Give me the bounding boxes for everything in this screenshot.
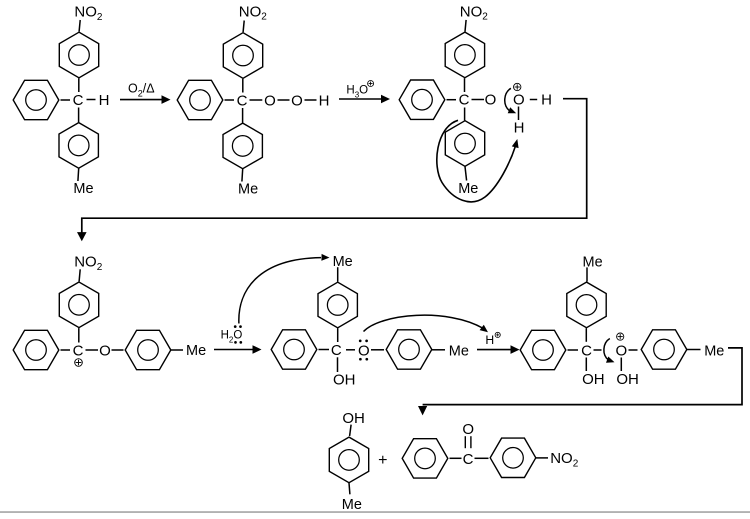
phenyl ring E-left	[271, 330, 317, 369]
bond D nitrophenyl-C4	[78, 328, 80, 342]
double bond C7=O	[465, 436, 471, 448]
bond B C2-tolyl	[242, 108, 244, 123]
curved arrow C-O cleavage (F)	[604, 339, 615, 363]
plus charge on H3O	[368, 81, 374, 87]
label NO2 (B)	[239, 3, 267, 22]
bond tolyl-Me (F)	[687, 349, 701, 351]
phenyl ring ketone-left	[402, 439, 448, 478]
svg-text:O: O	[264, 93, 276, 110]
tolyl ring E-top	[318, 282, 357, 328]
tolyl ring B-bottom	[223, 123, 262, 169]
nitrophenyl ring C-top	[445, 32, 484, 78]
atom O+ (C)	[513, 92, 525, 109]
svg-text:OH: OH	[582, 371, 605, 388]
svg-text:H: H	[99, 92, 110, 109]
plus charge on H (E arrow)	[495, 332, 500, 337]
bond ring-Me (cresol)	[348, 483, 351, 494]
svg-text:Me: Me	[186, 343, 206, 359]
bond O-tolyl (D)	[112, 349, 124, 351]
bond C nitrophenyl-C3	[464, 78, 466, 92]
label OH (cresol)	[342, 410, 365, 427]
atom H below (C)	[514, 119, 525, 136]
atom H (B)	[319, 93, 330, 110]
bond F phenyl-C6	[568, 349, 579, 351]
svg-text:H2O: H2O	[221, 329, 243, 344]
atom O (carbonyl)	[462, 421, 474, 438]
label OH (F left)	[582, 371, 605, 388]
bond C tolyl-Me	[465, 167, 467, 181]
bond A phenyl-C1	[61, 99, 71, 101]
cresol ring	[329, 437, 368, 483]
connector arrow 1	[77, 99, 587, 242]
atom O (B peroxide 2)	[291, 93, 303, 110]
lone pair dots above H2O	[234, 325, 242, 328]
phenyl ring B-left	[177, 80, 223, 119]
separator line	[0, 511, 750, 513]
bond C6-OH	[585, 358, 587, 372]
svg-text:O: O	[485, 92, 497, 109]
svg-text:O: O	[462, 421, 474, 438]
svg-text:NO2: NO2	[460, 3, 489, 22]
atom C5	[331, 342, 342, 359]
bond C5-OH	[337, 357, 339, 372]
lone pairs above O (E)	[359, 340, 368, 343]
bond C ring-NO2	[465, 20, 466, 32]
svg-text:C: C	[331, 342, 342, 359]
connector arrow 2	[418, 348, 742, 416]
bond D ring-NO2	[79, 269, 80, 281]
label O2/delta	[128, 82, 155, 99]
svg-text:C: C	[73, 343, 84, 360]
bond C5-O	[346, 349, 355, 351]
reaction arrow 3	[214, 345, 262, 354]
label Me (E right)	[449, 343, 469, 359]
tolyl ring A-bottom	[59, 123, 98, 169]
svg-text:Me: Me	[238, 182, 258, 198]
bond C phenyl-C3	[447, 99, 457, 101]
bond E phenyl-C5	[319, 349, 330, 351]
label Me (C)	[458, 181, 478, 197]
atom C1	[73, 92, 84, 109]
label Me (F right)	[704, 343, 724, 359]
svg-text:Me: Me	[583, 254, 603, 270]
label Me (F top)	[583, 254, 603, 270]
atom C6	[581, 343, 592, 360]
svg-text:O: O	[291, 93, 303, 110]
svg-text:C: C	[73, 92, 84, 109]
bond B phenyl-C2	[225, 99, 235, 101]
svg-text:C: C	[581, 343, 592, 360]
bond OH-ring (cresol)	[350, 425, 352, 436]
bond B ring-NO2	[243, 21, 244, 33]
bond A tolyl-Me	[77, 168, 80, 181]
atom O (D ether)	[99, 343, 111, 360]
bond C2-O	[250, 99, 263, 101]
label NO2 (A)	[74, 4, 103, 23]
bond O-H down (C)	[518, 107, 520, 121]
label Me (D)	[186, 343, 206, 359]
atom O (B peroxide 1)	[264, 93, 276, 110]
svg-text:Me: Me	[342, 497, 362, 513]
svg-text:C: C	[463, 451, 474, 468]
svg-text:O: O	[358, 342, 370, 359]
svg-text:O2/Δ: O2/Δ	[128, 82, 155, 99]
atom C4	[73, 343, 84, 360]
bond D phenyl-C4	[61, 349, 71, 351]
atom O (C ether)	[485, 92, 497, 109]
bond E ring-C5	[337, 328, 339, 342]
label NO2 (C)	[460, 3, 489, 22]
label NO2 (D)	[74, 253, 103, 272]
svg-text:NO2: NO2	[550, 450, 579, 469]
bond E Me-ring	[337, 267, 339, 282]
tolyl ring D-right	[125, 330, 171, 369]
svg-text:Me: Me	[704, 343, 724, 359]
svg-text:H3O: H3O	[346, 84, 368, 99]
label H3O+	[346, 84, 368, 99]
bond ring-NO2 (ketone)	[536, 457, 548, 459]
label H2O	[221, 329, 243, 344]
atom O (E ether)	[358, 342, 370, 359]
bond C1-H	[87, 99, 96, 101]
bond B nitrophenyl-C2	[242, 79, 244, 93]
plus charge on O (F)	[617, 333, 624, 340]
bond tolyl-Me (E)	[432, 349, 445, 351]
phenyl ring F-left	[520, 330, 566, 369]
label Me (A)	[73, 181, 93, 197]
svg-text:Me: Me	[449, 343, 469, 359]
svg-text:Me: Me	[458, 181, 478, 197]
bond B tolyl-Me	[241, 169, 244, 182]
nitrophenyl ring ketone-right	[490, 438, 536, 477]
svg-text:O: O	[615, 343, 627, 360]
atom O+ (F)	[615, 343, 627, 360]
svg-text:OH: OH	[333, 372, 356, 389]
nitrophenyl ring B-top	[223, 33, 262, 79]
nitrophenyl ring A-top	[59, 32, 98, 78]
label OH (E)	[333, 372, 356, 389]
phenyl ring A-left	[13, 80, 59, 119]
svg-text:NO2: NO2	[74, 253, 103, 272]
phenyl ring D-left	[13, 330, 59, 369]
bond phenyl-C7	[450, 457, 462, 459]
svg-text:H: H	[319, 93, 330, 110]
svg-text:NO2: NO2	[74, 4, 103, 23]
atom C3	[459, 92, 470, 109]
svg-text:H: H	[541, 92, 552, 109]
bond C4-O	[86, 349, 99, 351]
label H+	[485, 333, 494, 347]
bond O-tolyl (E)	[371, 349, 384, 351]
bond O-OH down (F)	[620, 358, 622, 372]
lone pair dots below H2O	[234, 341, 242, 344]
bond C C3-tolyl	[464, 108, 466, 121]
label Me (cresol)	[342, 497, 362, 513]
bond O-tolyl (F)	[629, 349, 638, 351]
svg-text:Me: Me	[333, 254, 353, 270]
curved arrow O-O cleavage (C)	[505, 88, 516, 113]
lone pairs below O (E)	[359, 358, 368, 361]
tolyl ring C-bottom	[445, 121, 484, 167]
atom C7 (carbonyl)	[463, 451, 474, 468]
label OH (F right)	[616, 371, 639, 388]
label NO2 (ketone)	[550, 450, 579, 469]
tolyl ring E-right	[386, 330, 432, 369]
svg-text:+: +	[378, 452, 387, 469]
bond C6-O	[594, 349, 602, 351]
label Me (B)	[238, 182, 258, 198]
phenyl ring C-left	[399, 80, 445, 119]
tolyl ring F-top	[567, 282, 606, 328]
svg-text:Me: Me	[73, 181, 93, 197]
svg-text:OH: OH	[616, 371, 639, 388]
bond C7-nitrophenyl	[475, 457, 489, 459]
bond A C1-tolyl	[78, 108, 80, 123]
svg-text:NO2: NO2	[239, 3, 267, 22]
plus sign	[378, 452, 387, 469]
bond O-H right (C)	[530, 99, 537, 101]
curved arrow H2O-to-Me	[239, 254, 330, 324]
svg-text:C: C	[237, 93, 248, 110]
nitrophenyl ring D-top	[59, 282, 98, 328]
plus charge on C4	[75, 359, 83, 367]
svg-text:H: H	[485, 333, 494, 347]
tolyl ring F-right	[641, 330, 687, 369]
reaction arrow 2	[339, 95, 390, 104]
curved arrow O-to-H+ (E)	[364, 315, 489, 332]
bond A nitrophenyl-C1	[78, 78, 80, 92]
atom C2	[237, 93, 248, 110]
bond O-O (B)	[278, 99, 290, 101]
svg-text:C: C	[459, 92, 470, 109]
bond F ring-C6	[585, 328, 587, 342]
bond F Me-ring	[586, 267, 588, 281]
reaction arrow 1	[120, 95, 171, 104]
bond O-H (B)	[305, 99, 317, 101]
svg-text:H: H	[514, 119, 525, 136]
atom H right (C)	[541, 92, 552, 109]
svg-text:O: O	[99, 343, 111, 360]
bond tolyl-Me (D)	[171, 349, 183, 351]
plus charge on O (C)	[514, 83, 521, 90]
atom H (A)	[99, 92, 110, 109]
label Me (E top)	[333, 254, 353, 270]
svg-text:OH: OH	[342, 410, 365, 427]
curved arrow tolyl-to-H (C)	[437, 120, 519, 202]
bond A ring-NO2	[79, 20, 80, 32]
bond C3-O	[472, 99, 485, 101]
svg-text:O: O	[513, 92, 525, 109]
reaction arrow 4	[477, 345, 520, 354]
